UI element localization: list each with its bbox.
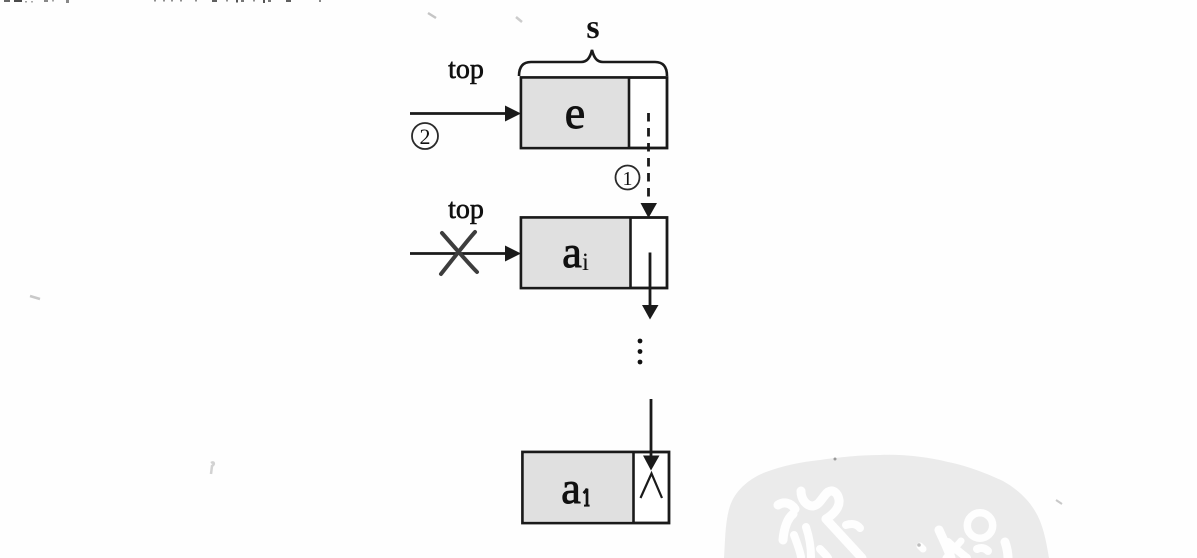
svg-text:a: a (562, 228, 582, 277)
svg-text:e: e (565, 87, 585, 138)
svg-text:i: i (582, 249, 589, 276)
svg-text:top: top (448, 54, 484, 85)
svg-text:1: 1 (623, 168, 633, 190)
svg-text:top: top (448, 194, 484, 225)
svg-text:a: a (561, 464, 581, 513)
svg-text:s: s (586, 9, 599, 46)
svg-text:2: 2 (420, 124, 431, 149)
